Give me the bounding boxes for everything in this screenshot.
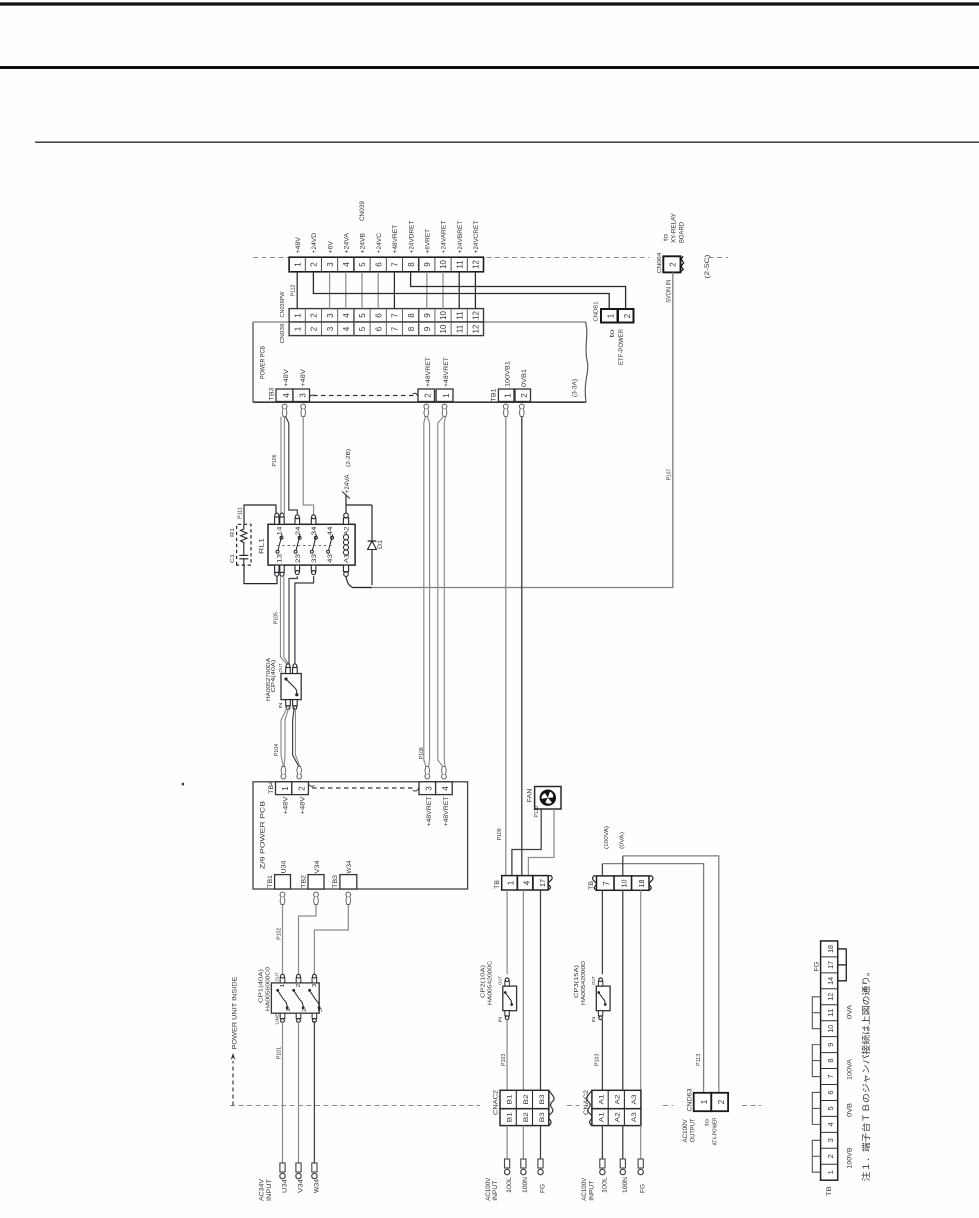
svg-text:to: to — [664, 233, 670, 241]
node: RL1 contacts — [276, 535, 334, 554]
wire: jumper 7-8-9 (100VA) — [812, 1045, 820, 1077]
wire: 100VA TB.7 to CP3 — [601, 890, 603, 974]
svg-text:P110: P110 — [534, 805, 540, 817]
svg-text:0VB1: 0VB1 — [522, 368, 528, 387]
node: AC100V-B terminals — [504, 1159, 543, 1175]
svg-text:100VB1: 100VB1 — [505, 360, 511, 387]
svg-text:2: 2 — [424, 393, 433, 398]
wire: U34 to CP1.1 (P102) — [282, 905, 284, 975]
svg-text:V34: V34 — [299, 1178, 305, 1193]
wire: jumper 10-11-12 (0VA) — [812, 997, 820, 1029]
wire: +48VRET pair TB4.3 to POWER-PCB TB3.2 (P108) — [424, 417, 426, 767]
node: CP1 left stubs — [280, 1013, 317, 1022]
svg-text:RL1: RL1 — [258, 537, 265, 554]
svg-text:TB3: TB3 — [332, 874, 339, 888]
svg-text:2: 2 — [310, 262, 319, 267]
node: crimp terminals at POWER PCB TB3/TB1 — [282, 404, 524, 416]
svg-text:1: 1 — [286, 1008, 292, 1012]
connector CN064 — [663, 256, 683, 272]
svg-text:0VA: 0VA — [848, 1005, 854, 1019]
svg-text:18: 18 — [637, 880, 646, 888]
wire: AC100V-A input leads — [601, 1126, 603, 1160]
wire: 0VB TB.4 to CNAC2 B2 — [522, 890, 524, 1090]
svg-text:8: 8 — [407, 313, 416, 318]
svg-text:11: 11 — [826, 1009, 835, 1017]
node: fan icon — [540, 790, 555, 805]
wire: CP3 to CNAC2 A1 — [601, 1020, 603, 1091]
node: CN039 pin name labels — [295, 220, 480, 253]
svg-text:+48VRET: +48VRET — [427, 796, 433, 826]
node: POWER UNIT INSIDE pointer — [232, 1061, 234, 1106]
svg-text:3: 3 — [425, 786, 434, 791]
connector CNAC2 (A1-A3) — [587, 1090, 641, 1125]
svg-text:to: to — [704, 1119, 710, 1126]
connector TB3 (POWER PCB) pin2 — [418, 389, 435, 402]
svg-text:7: 7 — [602, 881, 611, 886]
node: Z/&#952; POWER PCB board outline — [253, 782, 468, 889]
svg-text:LINE: LINE — [274, 1014, 279, 1025]
svg-text:12: 12 — [826, 993, 835, 1001]
wire: 100VB1 (P109) — [505, 417, 507, 876]
svg-text:AC100V: AC100V — [582, 1178, 588, 1201]
wire: W34 to CP1.3 — [314, 905, 348, 975]
svg-text:4: 4 — [441, 786, 450, 791]
svg-text:+6VRET: +6VRET — [425, 229, 432, 254]
svg-text:44: 44 — [328, 526, 334, 536]
svg-text:23: 23 — [296, 553, 302, 563]
node: CP3 stubs — [598, 981, 602, 986]
svg-text:CNDB1: CNDB1 — [594, 302, 600, 322]
wire: FG TB.18 to CNAC2 A3 — [640, 890, 642, 1090]
node: RL1 pin stubs right (14/24/34/A2) — [275, 513, 349, 524]
svg-text:3: 3 — [826, 1138, 835, 1142]
svg-text:+48V: +48V — [284, 797, 290, 815]
svg-text:CN064: CN064 — [657, 252, 663, 274]
wire: jumper 14-17-18 (FG) — [838, 949, 847, 981]
svg-text:A1: A1 — [598, 1094, 605, 1104]
svg-text:OUT: OUT — [591, 976, 596, 985]
svg-text:P105: P105 — [273, 612, 279, 624]
wire: fan return to TB.4 — [528, 809, 554, 875]
wire: snubber to contact 13 — [244, 565, 277, 584]
svg-text:IN: IN — [498, 1017, 503, 1023]
svg-text:Z/θ POWER PCB: Z/θ POWER PCB — [260, 801, 267, 869]
diode D1 — [371, 505, 373, 585]
svg-text:CN039: CN039 — [280, 324, 286, 344]
node: CP3 switch — [599, 993, 605, 1004]
node: RL1 pin numbers — [278, 526, 351, 563]
svg-text:13: 13 — [278, 553, 284, 563]
wire: AC34V U34 — [282, 1021, 284, 1164]
wire: snubber to contact 14 — [244, 505, 276, 524]
wire: CN039 pin8 to CNDB1 pin2 — [411, 272, 626, 309]
svg-text:CP3(15A): CP3(15A) — [574, 964, 580, 998]
svg-text:+24VCRET: +24VCRET — [473, 220, 480, 253]
svg-text:1: 1 — [507, 880, 516, 885]
svg-text:(3-3A): (3-3A) — [573, 379, 579, 397]
svg-text:1: 1 — [293, 313, 302, 318]
svg-text:2: 2 — [520, 393, 529, 398]
svg-text:AC100V: AC100V — [683, 1119, 689, 1142]
svg-text:9: 9 — [826, 1043, 835, 1047]
svg-text:B2: B2 — [523, 1094, 530, 1104]
svg-text:14: 14 — [278, 526, 284, 536]
node: CP2 switch — [506, 993, 512, 1004]
wire: page second rule — [0, 66, 979, 69]
svg-text:P111: P111 — [238, 507, 244, 519]
svg-text:+24VA: +24VA — [344, 232, 351, 253]
svg-text:A3: A3 — [631, 1094, 638, 1104]
wire: TB.10 to CND63.2 — [622, 856, 624, 876]
connector CND63 — [694, 1093, 728, 1111]
wire: SVON from CN064 to relay coil (P107) — [352, 272, 673, 587]
svg-text:10: 10 — [439, 324, 448, 333]
capacitor C1 — [239, 554, 248, 556]
breaker CP4 body — [281, 674, 301, 700]
svg-text:100N: 100N — [523, 1177, 529, 1193]
wire: fan live to TB.1 (P110) — [512, 809, 541, 875]
svg-text:5: 5 — [358, 326, 367, 331]
svg-text:TB3: TB3 — [268, 387, 275, 401]
svg-text:注１．端子台ＴＢのジャンパ接続は上図の通り。: 注１．端子台ＴＢのジャンパ接続は上図の通り。 — [860, 966, 871, 1181]
svg-text:9: 9 — [423, 313, 432, 318]
svg-text:POWER PCB: POWER PCB — [260, 346, 267, 379]
svg-text:FAN: FAN — [526, 789, 533, 803]
wire: A2 to +24VA and D1 top — [345, 495, 347, 513]
svg-text:HA0056000C0: HA0056000C0 — [266, 967, 272, 1011]
connector TB terminal strip (jumper detail) — [821, 941, 838, 1180]
svg-text:AC34V: AC34V — [260, 1179, 266, 1201]
svg-text:8: 8 — [826, 1058, 835, 1062]
wire: AC34V W34 — [313, 1021, 315, 1164]
svg-text:24: 24 — [296, 526, 302, 536]
svg-text:6: 6 — [374, 326, 383, 331]
svg-text:2: 2 — [310, 313, 319, 318]
svg-text:B1: B1 — [507, 1094, 514, 1104]
connector TB pins 7/10/18 — [592, 876, 653, 890]
svg-text:CND63: CND63 — [688, 1088, 694, 1112]
svg-text:18: 18 — [826, 945, 835, 953]
svg-text:U34: U34 — [283, 1178, 289, 1193]
svg-text:+24VD: +24VD — [311, 232, 318, 253]
svg-text:5: 5 — [358, 262, 367, 267]
node: snubber dashed box — [237, 524, 251, 565]
svg-text:6: 6 — [374, 262, 383, 267]
svg-text:W34: W34 — [347, 860, 353, 874]
svg-text:ATX-POWER: ATX-POWER — [712, 1118, 718, 1146]
svg-text:P101: P101 — [276, 1047, 282, 1059]
svg-text:TB: TB — [588, 881, 595, 890]
svg-text:INPUT: INPUT — [493, 1180, 499, 1200]
svg-text:+48V: +48V — [284, 369, 290, 387]
svg-text:ETF-POWER: ETF-POWER — [619, 328, 625, 365]
svg-text:CP1(40A): CP1(40A) — [258, 968, 264, 1003]
relay RL1 body — [268, 524, 355, 565]
svg-text:+6V: +6V — [327, 240, 334, 253]
svg-text:to: to — [610, 328, 616, 337]
svg-text:TB2: TB2 — [300, 874, 307, 888]
svg-text:7: 7 — [826, 1074, 835, 1078]
connector CNDB1 — [601, 309, 634, 323]
wire: jumper dashes TB4.2 - TB4.3 — [308, 784, 314, 787]
connector CN039 (socket row) — [289, 322, 483, 336]
svg-text:3: 3 — [298, 393, 307, 398]
svg-text:OUT: OUT — [274, 972, 279, 981]
svg-text:1: 1 — [293, 262, 302, 267]
svg-text:8: 8 — [407, 262, 416, 267]
svg-text:A1: A1 — [598, 1112, 605, 1122]
svg-text:CN039PW: CN039PW — [280, 291, 286, 317]
node: RL1 pin stubs left (13/23/33/A1) — [275, 565, 349, 576]
svg-text:100VA: 100VA — [848, 1059, 854, 1080]
connector CN039 (12-pin plug) — [289, 257, 483, 272]
svg-text:XY-RELAY: XY-RELAY — [672, 213, 678, 243]
resistor R1 — [241, 528, 247, 544]
node: +24VA (2-2B) source label with break — [342, 492, 350, 499]
connector TB4 pin3 — [419, 782, 436, 795]
wire: TB.7 to CND63.1 — [601, 864, 603, 876]
svg-text:+48VRET: +48VRET — [444, 796, 450, 826]
breaker CP3 body — [596, 986, 610, 1011]
svg-text:2: 2 — [669, 262, 678, 267]
svg-text:+24VBRET: +24VBRET — [457, 220, 464, 253]
svg-text:5: 5 — [826, 1106, 835, 1110]
connector TB3 (Z-PCB) W34 — [340, 875, 357, 889]
svg-text:+48V: +48V — [295, 236, 302, 253]
svg-text:6: 6 — [374, 313, 383, 318]
connector CN039PW (board-side row) — [289, 309, 483, 322]
svg-text:10: 10 — [619, 880, 628, 888]
svg-text:OUT: OUT — [497, 976, 502, 985]
node: crimp terminals at TB4 — [281, 767, 446, 779]
svg-text:+24VB: +24VB — [360, 233, 367, 254]
wire: CP2 to CNAC2 B1 — [506, 1020, 508, 1091]
svg-text:FG: FG — [540, 1184, 546, 1193]
wire: CN039 pins to board row — [297, 272, 475, 309]
node: power-unit boundary (top, dashed) — [253, 257, 289, 259]
svg-text:12: 12 — [472, 260, 481, 269]
svg-text:2: 2 — [826, 1154, 835, 1158]
wire: AC34V V34 — [298, 1021, 300, 1164]
svg-text:2: 2 — [296, 983, 302, 987]
node: crimp terminals at Z-PCB TB1/TB2/TB3 — [280, 892, 351, 904]
wire: AC100V-B input leads — [506, 1126, 508, 1160]
wire: CN039 pin2 to CNDB1 pin1 — [313, 272, 609, 309]
wire: +48VRET pair TB4.4 to POWER-PCB TB3.1 — [438, 417, 444, 767]
svg-text:10: 10 — [826, 1025, 835, 1033]
connector TB3 (POWER PCB) pin4 — [276, 389, 293, 402]
node: AC34V input terminals — [280, 1163, 317, 1179]
wire: RL1 pin23 to CP4 OUT1 — [289, 576, 297, 664]
wire: 0VB1 — [521, 417, 523, 876]
svg-text:B3: B3 — [539, 1112, 546, 1122]
svg-text:B1: B1 — [507, 1112, 514, 1122]
svg-text:9: 9 — [423, 326, 432, 331]
svg-text:P103: P103 — [595, 1054, 601, 1066]
svg-text:1: 1 — [281, 786, 290, 791]
svg-text:(0VA): (0VA) — [620, 832, 626, 849]
svg-text:4: 4 — [342, 313, 351, 318]
wire: TB3.4 to RL1 pin24 — [286, 417, 298, 515]
svg-text:43: 43 — [328, 553, 334, 563]
svg-text:+48VRET: +48VRET — [444, 357, 450, 387]
svg-text:7: 7 — [391, 262, 400, 267]
node: CP4 IN stubs — [286, 700, 291, 706]
svg-text:W34: W34 — [314, 1178, 320, 1193]
svg-text:V34: V34 — [315, 860, 321, 874]
wire: 100VB TB.1 to CP2 — [506, 890, 508, 974]
svg-text:(2-2B): (2-2B) — [346, 449, 352, 467]
connector TB1 (POWER PCB) pin1 — [498, 389, 514, 402]
node: POWER PCB board outline — [252, 322, 254, 402]
svg-text:3: 3 — [326, 313, 335, 318]
svg-text:7: 7 — [391, 326, 400, 331]
wire: A1 to coil return — [346, 576, 352, 587]
svg-text:CNAC2: CNAC2 — [584, 1089, 590, 1115]
svg-text:2: 2 — [310, 326, 319, 331]
wire: RL1 pin33 to CP4 OUT2 — [295, 576, 314, 664]
svg-text:10: 10 — [439, 260, 448, 269]
node: AC100V-A terminals — [600, 1159, 644, 1175]
wire: +48V TB3.3 to RL1 pin34 — [303, 417, 313, 515]
connector TB4 pin4 — [436, 782, 453, 795]
svg-text:+48VRET: +48VRET — [392, 225, 399, 254]
wire: page top rule — [0, 2, 979, 5]
node: RL1 coil — [343, 535, 348, 555]
svg-text:100L: 100L — [603, 1176, 609, 1193]
wire: jumper dashes TB3.3 - TB3.2 — [310, 395, 316, 397]
node: CP2 stubs — [505, 981, 509, 986]
svg-text:17: 17 — [538, 879, 547, 887]
svg-text:BOARD: BOARD — [680, 221, 686, 243]
svg-text:100L: 100L — [507, 1176, 513, 1193]
svg-text:4: 4 — [522, 880, 531, 885]
svg-text:(100VA): (100VA) — [604, 826, 610, 849]
svg-text:TB: TB — [826, 1186, 833, 1196]
connector TB pins 1/4/17 — [502, 876, 553, 890]
svg-text:A2: A2 — [345, 526, 351, 536]
svg-text:12: 12 — [472, 311, 481, 320]
node: CP4 OUT stubs — [286, 667, 291, 673]
svg-text:1: 1 — [442, 393, 451, 398]
svg-text:INPUT: INPUT — [589, 1180, 595, 1200]
svg-text:TB1: TB1 — [267, 874, 274, 888]
svg-text:+24VDRET: +24VDRET — [408, 220, 415, 253]
svg-text:+48VRET: +48VRET — [426, 357, 432, 387]
svg-text:TB4: TB4 — [268, 780, 275, 794]
svg-text:+24VA: +24VA — [345, 475, 351, 494]
svg-text:(2-5C): (2-5C) — [705, 255, 711, 279]
svg-text:CP2(10A): CP2(10A) — [480, 964, 486, 998]
svg-text:TB1: TB1 — [491, 388, 498, 402]
breaker CP2 body — [503, 986, 517, 1011]
svg-text:P103: P103 — [501, 1054, 507, 1066]
svg-text:P102: P102 — [276, 927, 282, 939]
svg-text:+24VC: +24VC — [376, 232, 383, 253]
connector CNAC2 (B1-B3) — [500, 1090, 554, 1125]
wire: CP4 IN1 pair to TB4.1 (P104) — [281, 708, 287, 766]
svg-text:1: 1 — [607, 313, 616, 318]
svg-text:12: 12 — [472, 324, 481, 333]
breaker CP1 body — [271, 983, 319, 1013]
svg-text:P113: P113 — [696, 1054, 702, 1066]
wire: +48V pair TB3.4 to RL1 pin14 (P106) — [280, 417, 282, 515]
svg-text:AC100V: AC100V — [486, 1178, 492, 1201]
svg-text:C1: C1 — [230, 554, 236, 563]
svg-text:0VB: 0VB — [848, 1103, 854, 1117]
svg-text:9: 9 — [423, 262, 432, 267]
svg-text:HA00542000C: HA00542000C — [487, 960, 493, 1005]
svg-text:4: 4 — [282, 393, 291, 398]
svg-text:FG: FG — [815, 961, 821, 971]
connector TB1 (Z-PCB) U34 — [275, 875, 291, 889]
svg-text:+48V: +48V — [301, 797, 307, 815]
svg-text:14: 14 — [826, 977, 835, 985]
connector TB3 (POWER PCB) pin1 — [436, 389, 453, 402]
svg-text:R1: R1 — [230, 528, 236, 537]
wire: page third rule — [35, 141, 979, 143]
wire: CP4 IN2 pair to TB4.2 — [293, 708, 299, 766]
node: CP4 switch symbol — [287, 680, 297, 695]
svg-text:7: 7 — [391, 313, 400, 318]
svg-text:33: 33 — [312, 553, 318, 563]
svg-text:3: 3 — [326, 326, 335, 331]
node: CP1 right stubs — [280, 974, 317, 983]
svg-text:P104: P104 — [274, 744, 280, 756]
svg-text:HA00542000D: HA00542000D — [581, 960, 587, 1005]
wire: jumper 1-2-3 (100VB) — [812, 1140, 820, 1172]
svg-text:1: 1 — [293, 326, 302, 331]
wire: pair RL1 pin13 to CP4 OUT1 (P105) — [281, 576, 288, 664]
svg-text:6: 6 — [826, 1090, 835, 1094]
svg-text:CN039: CN039 — [359, 201, 366, 221]
svg-text:11: 11 — [455, 324, 464, 333]
svg-text:100N: 100N — [623, 1177, 629, 1193]
svg-text:34: 34 — [312, 526, 318, 536]
svg-text:2: 2 — [623, 313, 632, 318]
svg-text:1: 1 — [504, 393, 513, 398]
svg-text:B3: B3 — [539, 1094, 546, 1104]
svg-text:3: 3 — [318, 1008, 324, 1012]
svg-text:3: 3 — [326, 262, 335, 267]
svg-text:SVON IN: SVON IN — [666, 280, 672, 303]
connector TB4 pin2 — [292, 782, 309, 795]
svg-text:2: 2 — [297, 786, 306, 791]
component FAN box — [535, 787, 561, 810]
svg-text:17: 17 — [826, 961, 835, 969]
svg-text:P108: P108 — [419, 747, 425, 759]
svg-text:P112: P112 — [291, 284, 297, 296]
svg-text:4: 4 — [826, 1122, 835, 1126]
svg-text:TB: TB — [494, 880, 501, 889]
svg-text:+24VARET: +24VARET — [441, 220, 448, 253]
svg-text:1: 1 — [280, 983, 286, 987]
svg-text:OUT: OUT — [278, 663, 283, 672]
svg-text:8: 8 — [407, 326, 416, 331]
svg-text:CNAC2: CNAC2 — [494, 1089, 500, 1115]
node: scan speck — [182, 783, 184, 786]
svg-text:1: 1 — [700, 1099, 709, 1104]
connector TB4 pin1 — [276, 782, 292, 795]
svg-text:11: 11 — [455, 260, 464, 269]
connector TB3 (POWER PCB) pin3 — [293, 389, 310, 402]
svg-text:A3: A3 — [631, 1112, 638, 1122]
svg-text:3: 3 — [312, 983, 318, 987]
svg-text:5: 5 — [358, 313, 367, 318]
connector TB2 (Z-PCB) V34 — [308, 875, 324, 889]
svg-text:POWER UNIT INSIDE: POWER UNIT INSIDE — [231, 977, 238, 1050]
svg-text:OUTPUT: OUTPUT — [691, 1118, 697, 1142]
